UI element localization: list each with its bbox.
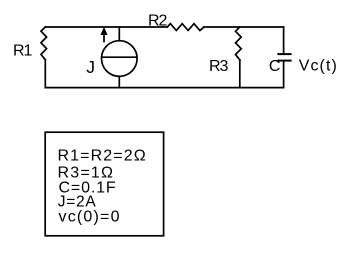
svg-text:vc(0)=0: vc(0)=0 bbox=[59, 209, 121, 226]
resistor R1 bbox=[41, 27, 47, 60]
wire capacitor top lead bbox=[283, 27, 285, 54]
wire current source bottom lead bbox=[118, 76, 120, 87]
svg-text:R1: R1 bbox=[13, 43, 33, 60]
wire bottom rail bbox=[45, 87, 283, 89]
wire R2 to top-right corner bbox=[204, 26, 284, 28]
wire current source top lead bbox=[118, 27, 120, 41]
wire capacitor bottom lead bbox=[283, 61, 285, 88]
svg-text:C: C bbox=[269, 58, 281, 75]
capacitor C bottom plate bbox=[277, 60, 291, 62]
current source arrow head bbox=[100, 27, 107, 35]
capacitor C top plate bbox=[277, 53, 291, 55]
resistor R2 bbox=[167, 24, 204, 31]
resistor R3 bbox=[236, 27, 242, 60]
current source J bar bbox=[102, 56, 137, 58]
svg-text:J: J bbox=[86, 57, 95, 77]
wire top-left to R2 bbox=[45, 26, 167, 28]
values box bbox=[45, 132, 163, 236]
current source J circle bbox=[102, 41, 138, 77]
wire R3 bottom lead bbox=[239, 60, 241, 88]
wire R1 bottom lead bbox=[44, 60, 46, 88]
svg-text:Vc(t): Vc(t) bbox=[299, 58, 338, 75]
svg-text:R3: R3 bbox=[209, 58, 229, 75]
current source arrow shaft bbox=[103, 32, 105, 42]
svg-text:R2: R2 bbox=[148, 13, 168, 30]
svg-text:R1=R2=2Ω: R1=R2=2Ω bbox=[58, 147, 147, 164]
